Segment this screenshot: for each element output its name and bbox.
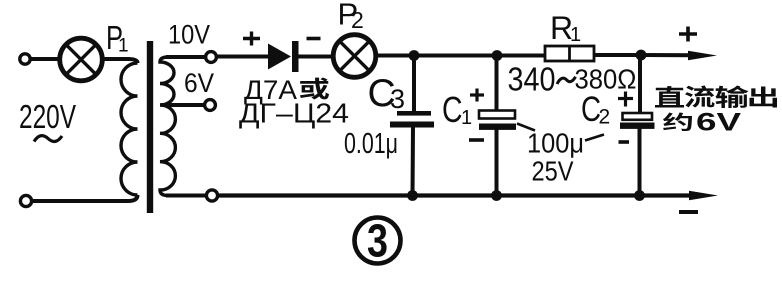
label approx 6V — [663, 113, 692, 131]
minus sign (diode cathode) — [307, 37, 321, 41]
wire: diode to lamp P2 — [298, 55, 334, 59]
wire: top rail node A to C1 node — [414, 54, 497, 58]
capacitor C3 — [397, 111, 431, 116]
lamp P2 — [333, 35, 376, 78]
wire: C2 node to output plus arrow — [641, 53, 695, 57]
svg-text:1: 1 — [461, 107, 472, 129]
wire: C1 to bottom rail — [495, 129, 499, 196]
svg-text:100μ: 100μ — [527, 128, 584, 159]
wire: C1 node to R1 — [497, 54, 546, 58]
wire: secondary 6V tap — [162, 103, 204, 107]
svg-text:340: 340 — [508, 61, 556, 98]
capacitor C2 (electrolytic) — [623, 113, 653, 120]
diode D (Д7A or ДГ-Ц24) — [268, 44, 291, 70]
wire: 10V tap to diode — [218, 55, 271, 59]
svg-text:6V: 6V — [696, 109, 741, 137]
wire: input bottom to transformer primary — [32, 195, 138, 201]
svg-text:C: C — [442, 89, 463, 130]
wire: C3 to bottom rail — [411, 127, 416, 196]
transformer T primary winding — [121, 63, 137, 195]
svg-text:2: 2 — [599, 106, 611, 129]
wire: node A to C3 — [412, 56, 416, 113]
wire: secondary 10V tap — [166, 55, 205, 59]
transformer secondary winding lower (6V-0) — [160, 105, 175, 196]
junction: C2 top — [636, 50, 647, 61]
junction: C1 bottom — [491, 190, 502, 201]
label DC output (Chinese) — [655, 86, 684, 108]
plus sign C2 — [618, 92, 633, 107]
plus sign (diode anode) — [243, 32, 260, 46]
transformer secondary winding upper (10V-6V) — [160, 57, 174, 105]
plus sign C1 — [470, 89, 484, 102]
terminal: AC input top — [20, 54, 30, 64]
AC tilde symbol — [34, 136, 62, 142]
lamp P1 — [60, 38, 103, 81]
junction: C3 bottom — [407, 190, 418, 201]
wire: lamp P2 to node A — [375, 54, 414, 58]
node A junction (C3 top) — [409, 50, 420, 61]
svg-text:3: 3 — [390, 84, 405, 114]
svg-text:25V: 25V — [532, 156, 575, 187]
arrow: DC output plus — [688, 51, 717, 60]
resistor R1 — [545, 46, 594, 61]
wire: input top to lamp P1 — [31, 57, 61, 61]
svg-text:0.01μ: 0.01μ — [344, 128, 398, 160]
minus sign C1 — [469, 138, 484, 142]
wire: C2 to bottom rail — [638, 128, 642, 196]
leader line C1 to 100u — [517, 124, 535, 131]
minus sign output — [679, 210, 698, 214]
wire: C1 top — [495, 56, 499, 112]
wire: secondary bottom tap — [166, 194, 206, 198]
svg-text:3: 3 — [367, 215, 388, 267]
capacitor C1 (electrolytic) — [479, 111, 515, 119]
figure number 3 (circled) — [355, 218, 401, 264]
minus sign C2 — [619, 140, 630, 144]
svg-text:220V: 220V — [19, 98, 76, 135]
svg-text:ДГ–Ц24: ДГ–Ц24 — [239, 98, 349, 129]
leader line 100u to C2 — [585, 135, 604, 141]
wire: R1 to C2 node — [594, 53, 641, 57]
terminal: 6V tap — [205, 100, 216, 111]
arrow: DC output minus — [689, 191, 718, 200]
terminal: 10V tap — [206, 52, 217, 63]
svg-text:2: 2 — [351, 7, 364, 33]
svg-text:1: 1 — [118, 36, 129, 57]
terminal: AC input bottom — [20, 195, 31, 206]
svg-text:1: 1 — [570, 24, 581, 46]
svg-text:6V: 6V — [184, 68, 214, 98]
transformer core — [147, 41, 153, 213]
junction: C2 bottom — [634, 190, 645, 201]
junction: C1 top — [492, 50, 503, 61]
svg-text:10V: 10V — [168, 20, 210, 50]
plus sign output — [679, 27, 697, 42]
wire: C2 top — [638, 55, 642, 114]
wire: lamp P1 to transformer primary — [102, 59, 138, 63]
wire: bottom rail — [218, 193, 696, 197]
terminal: secondary bottom — [206, 190, 217, 201]
